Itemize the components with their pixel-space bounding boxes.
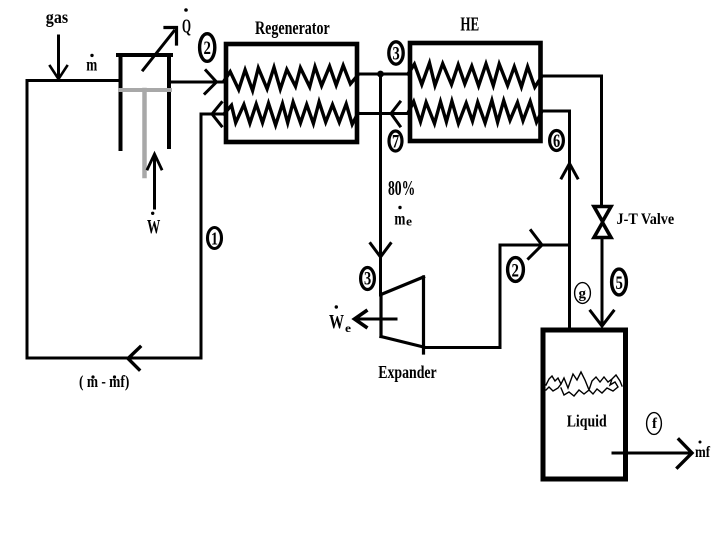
svg-text:( m - mf): ( m - mf) — [79, 372, 129, 391]
wire expander inlet arrowhead down — [371, 244, 391, 258]
node mdot label — [86, 54, 97, 75]
wire liquid outlet arrowhead — [678, 440, 693, 468]
svg-text:m: m — [394, 209, 405, 229]
wire regenerator to HE upper — [357, 73, 410, 76]
wire to g-junction horizontal — [500, 244, 570, 247]
svg-text:2: 2 — [512, 261, 519, 282]
wire liquid outlet — [613, 452, 688, 455]
node 6 stream circle — [550, 131, 564, 153]
svg-text:1: 1 — [211, 229, 218, 249]
wire HE bottom-right inlet — [540, 110, 570, 113]
wire cold-out arrowhead left — [212, 103, 222, 127]
node f stream circle — [647, 413, 662, 435]
wire left loop vertical — [26, 81, 29, 359]
node 3 stream circle (expander inlet) — [361, 268, 375, 290]
wire expander outlet horizontal — [424, 346, 501, 349]
svg-text:Q: Q — [182, 16, 191, 38]
expander trapezoid — [381, 277, 424, 353]
node Qdot label — [182, 8, 191, 37]
svg-text:Expander: Expander — [378, 362, 436, 382]
arrow W work input — [148, 154, 162, 208]
wire arrowhead right on junction line — [529, 231, 543, 259]
arrow We work output — [355, 311, 397, 327]
node 7 stream circle — [389, 131, 402, 153]
wire valve to tank — [601, 239, 604, 325]
wire return riser to regenerator — [200, 114, 203, 358]
node 5 stream circle — [612, 269, 627, 295]
compressor piston rod (gray) — [142, 90, 147, 176]
svg-text:W: W — [147, 216, 160, 238]
svg-text:3: 3 — [393, 44, 400, 65]
regenerator cold coil zigzag — [224, 102, 358, 125]
node Wdot label — [147, 212, 160, 238]
svg-text:Liquid: Liquid — [567, 412, 607, 431]
svg-text:5: 5 — [616, 273, 623, 294]
wire bottom return line — [27, 357, 201, 360]
svg-text:6: 6 — [553, 131, 560, 152]
J-T valve symbol — [594, 207, 611, 238]
compressor piston-cylinder — [118, 55, 171, 149]
wire HE top outlet to right — [540, 75, 602, 78]
arrow Q heat rejection — [143, 28, 177, 71]
regenerator box — [226, 44, 357, 142]
HE box — [410, 43, 541, 141]
node 2 stream circle (expander outlet) — [508, 258, 524, 282]
svg-text:gas: gas — [46, 7, 68, 27]
HE cold coil zigzag — [408, 101, 542, 124]
svg-text:2: 2 — [204, 38, 211, 59]
wire left inlet horizontal — [27, 79, 120, 82]
wire right drop to J-T valve — [600, 76, 603, 205]
wire HE to regenerator lower — [357, 112, 410, 115]
wire tank inlet arrowhead down — [591, 311, 614, 326]
svg-text:W: W — [329, 311, 344, 333]
wire regenerator cold-out line — [201, 113, 226, 116]
svg-text:e: e — [406, 214, 412, 229]
node mdot-f label — [695, 441, 711, 462]
svg-text:m: m — [86, 54, 97, 74]
wire discharge arrowhead right — [205, 71, 217, 94]
node 1 stream circle — [208, 228, 222, 249]
svg-text:Regenerator: Regenerator — [255, 18, 330, 39]
svg-text:J-T Valve: J-T Valve — [617, 211, 675, 228]
svg-text:f: f — [652, 416, 658, 432]
node mdot-e label — [394, 206, 412, 229]
liquid receiver tank — [543, 330, 626, 479]
svg-text:e: e — [345, 321, 352, 335]
node 2 stream circle — [200, 34, 215, 62]
node (mdot - mdot f) label — [79, 372, 129, 391]
wire bottom return arrowhead — [128, 347, 140, 370]
node 3 stream circle — [389, 42, 403, 65]
node Wdot-e label — [329, 305, 352, 335]
wire riser up arrowhead — [562, 164, 578, 179]
wire outlet riser up — [499, 245, 502, 348]
HE hot coil zigzag — [408, 63, 542, 87]
svg-text:mf: mf — [695, 444, 711, 461]
wire compressor discharge — [169, 81, 226, 84]
liquid surface wavy line — [546, 372, 622, 396]
node g stream circle — [575, 283, 591, 304]
wire riser up to HE — [568, 111, 571, 245]
svg-text:HE: HE — [460, 14, 479, 36]
svg-text:7: 7 — [392, 132, 400, 153]
svg-text:3: 3 — [364, 269, 371, 290]
compressor piston plate (gray) — [120, 88, 170, 92]
regenerator hot coil zigzag — [224, 66, 358, 91]
wire vapor return g line — [568, 245, 571, 330]
svg-text:g: g — [579, 286, 587, 302]
svg-text:80%: 80% — [388, 176, 415, 200]
wire lower arrowhead left — [391, 102, 400, 126]
wire gas inlet arrow — [50, 36, 67, 79]
node junction dot — [377, 71, 384, 78]
wire bypass drop from junction to expander — [379, 74, 382, 295]
